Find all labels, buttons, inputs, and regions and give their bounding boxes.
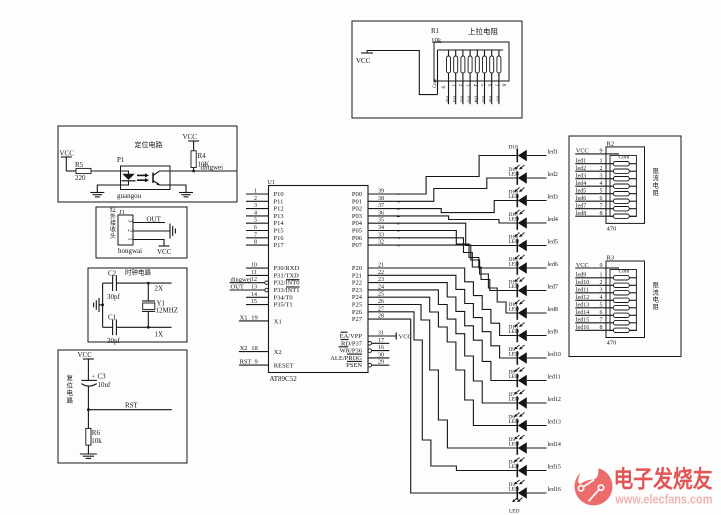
svg-text:led3: led3 bbox=[548, 195, 558, 201]
wire P21 to led10 bbox=[368, 275, 517, 358]
wire P00 to led1 bbox=[368, 156, 517, 195]
optocoupler coupling arrows bbox=[137, 173, 149, 182]
svg-text:led7: led7 bbox=[548, 285, 558, 291]
net label led6 (LED side) bbox=[548, 262, 558, 268]
svg-text:OUT: OUT bbox=[231, 284, 244, 291]
svg-text:P34/T0: P34/T0 bbox=[274, 294, 293, 301]
J1 pin numbers 3 2 1 (rotated) bbox=[127, 220, 133, 241]
net label dingwei (to P32/INT0) bbox=[231, 276, 252, 283]
svg-text:R3: R3 bbox=[607, 255, 615, 262]
svg-text:P10: P10 bbox=[274, 191, 284, 198]
svg-text:19: 19 bbox=[251, 314, 257, 321]
LED D10 (led9) bbox=[509, 323, 547, 343]
svg-text:P23: P23 bbox=[352, 287, 362, 294]
svg-text:9: 9 bbox=[255, 359, 258, 366]
svg-text:1: 1 bbox=[254, 189, 257, 195]
svg-text:4: 4 bbox=[600, 181, 603, 187]
power VCC (reset circuit) bbox=[78, 351, 94, 380]
svg-text:P27: P27 bbox=[352, 316, 363, 323]
svg-text:www.elecfans.com: www.elecfans.com bbox=[615, 493, 713, 507]
svg-text:7: 7 bbox=[600, 204, 603, 210]
net label led2 (LED side) bbox=[548, 172, 558, 178]
svg-text:AT89C52: AT89C52 bbox=[270, 375, 298, 383]
R1 net labels P00-P07 (rotated) bbox=[445, 96, 500, 103]
svg-text:P16: P16 bbox=[274, 235, 285, 242]
svg-text:P30/RXD: P30/RXD bbox=[274, 265, 300, 272]
svg-text:1X: 1X bbox=[155, 331, 164, 339]
R1 resistor elements 1-8 bbox=[447, 50, 501, 104]
R2 element pin 6 (net led6) bbox=[575, 196, 636, 203]
svg-text:收: 收 bbox=[110, 226, 116, 234]
svg-text:P31/TXD: P31/TXD bbox=[274, 272, 300, 279]
LED D3 (led16) bbox=[509, 480, 547, 500]
label hongwai bbox=[118, 247, 142, 255]
svg-text:led16: led16 bbox=[576, 325, 589, 331]
svg-text:1: 1 bbox=[600, 159, 603, 165]
svg-text:电: 电 bbox=[67, 388, 74, 397]
net label led15 (LED side) bbox=[548, 465, 561, 471]
label 时钟电路 bbox=[125, 268, 152, 277]
svg-text:5: 5 bbox=[254, 218, 257, 224]
label guangou bbox=[117, 192, 142, 200]
svg-text:P20: P20 bbox=[352, 265, 362, 272]
svg-text:led10: led10 bbox=[548, 352, 561, 358]
LED D3 emission arrows (below led16) bbox=[512, 498, 523, 503]
svg-text:Com: Com bbox=[619, 269, 631, 275]
R3 element pin 1 (net led9) bbox=[575, 273, 636, 280]
svg-text:8: 8 bbox=[600, 211, 603, 217]
svg-text:OUT: OUT bbox=[147, 216, 162, 224]
net label led13 (LED side) bbox=[548, 420, 561, 426]
ground (clock circuit, rotated left) bbox=[94, 298, 104, 312]
svg-text:流: 流 bbox=[653, 287, 660, 296]
optocoupler LED (pointing down) bbox=[121, 171, 136, 185]
wire RST bbox=[88, 402, 171, 410]
svg-text:led5: led5 bbox=[548, 240, 558, 246]
svg-text:P01: P01 bbox=[352, 198, 362, 205]
label LED (below led16) bbox=[509, 508, 520, 514]
R3 element pin 8 (net led16) bbox=[575, 325, 636, 332]
U1 pin RD/P37 (17) bbox=[341, 338, 390, 348]
svg-text:14: 14 bbox=[251, 292, 257, 298]
wire P03 to led4 bbox=[368, 216, 517, 223]
svg-text:10: 10 bbox=[251, 263, 257, 269]
wire X2 rail bbox=[147, 282, 172, 285]
svg-text:dingwei: dingwei bbox=[231, 276, 252, 283]
block frame: clock circuit (shi zhong dian lu) bbox=[88, 268, 187, 342]
svg-text:30pf: 30pf bbox=[107, 337, 121, 345]
svg-text:RST: RST bbox=[240, 359, 252, 366]
R2 common bus bbox=[606, 154, 636, 217]
net label OUT (to P33/INT1) bbox=[231, 284, 244, 291]
svg-text:30: 30 bbox=[378, 352, 384, 358]
svg-text:led13: led13 bbox=[548, 420, 561, 426]
svg-text:LED: LED bbox=[509, 194, 520, 200]
power VCC (above R4) bbox=[183, 133, 200, 141]
svg-text:P33/INT1: P33/INT1 bbox=[274, 287, 300, 294]
wire VCC to R2 pin9 bbox=[575, 148, 606, 155]
svg-text:P03: P03 bbox=[467, 96, 472, 103]
net label led3 (LED side) bbox=[548, 195, 558, 201]
svg-text:18: 18 bbox=[251, 345, 257, 352]
svg-text:P04: P04 bbox=[352, 220, 363, 227]
svg-text:led11: led11 bbox=[548, 375, 561, 381]
svg-text:10k: 10k bbox=[91, 437, 102, 445]
svg-text:led2: led2 bbox=[576, 166, 586, 172]
capacitor C2 bbox=[103, 270, 149, 302]
R3 element pin 7 (net led15) bbox=[575, 318, 636, 325]
svg-text:led11: led11 bbox=[576, 288, 589, 294]
LED D4 (led15) bbox=[509, 458, 547, 478]
U1 port1 pins 1-8 P10-P17 bbox=[246, 189, 284, 250]
svg-text:LED: LED bbox=[509, 374, 520, 380]
svg-text:P11: P11 bbox=[274, 198, 284, 205]
svg-text:RST: RST bbox=[125, 402, 139, 410]
svg-text:D18: D18 bbox=[509, 145, 519, 151]
power VCC (pull-up box) bbox=[356, 51, 373, 66]
svg-text:LED: LED bbox=[509, 441, 520, 447]
R2 element pin 5 (net led5) bbox=[575, 189, 636, 196]
R2 element pin 4 (net led4) bbox=[575, 181, 636, 188]
svg-text:12MHZ: 12MHZ bbox=[156, 307, 179, 315]
svg-text:复: 复 bbox=[67, 373, 74, 382]
label 限流电阻 (vertical, R2) bbox=[653, 166, 660, 197]
svg-text:11: 11 bbox=[251, 270, 257, 276]
net label 2X bbox=[155, 285, 164, 293]
svg-text:led1: led1 bbox=[548, 150, 558, 156]
svg-text:流: 流 bbox=[653, 173, 660, 182]
svg-text:17: 17 bbox=[378, 338, 384, 344]
svg-text:VCC: VCC bbox=[157, 248, 172, 256]
wire R5 to optocoupler bbox=[91, 170, 120, 172]
svg-text:470: 470 bbox=[607, 340, 617, 347]
ground (J1 pin2, rotated right) bbox=[170, 224, 175, 239]
svg-text:电: 电 bbox=[653, 295, 660, 304]
wire P07 to led8 bbox=[368, 245, 517, 313]
U1 port2 pin numbers and names bbox=[352, 263, 384, 324]
wire P27 to led16 bbox=[368, 319, 517, 493]
svg-text:P02: P02 bbox=[459, 96, 464, 103]
svg-text:led6: led6 bbox=[576, 196, 586, 202]
svg-text:LED: LED bbox=[509, 351, 520, 357]
svg-text:led4: led4 bbox=[576, 181, 586, 187]
svg-text:P26: P26 bbox=[352, 309, 363, 316]
watermark text 电子发烧友 bbox=[614, 465, 713, 492]
wire P01 to led2 bbox=[368, 178, 517, 201]
watermark text www.elecfans.com bbox=[615, 493, 713, 507]
svg-text:5: 5 bbox=[600, 303, 603, 309]
svg-text:VCC: VCC bbox=[183, 133, 198, 141]
IC U1 part name AT89C52 bbox=[270, 375, 298, 383]
LED D9 (led10) bbox=[509, 345, 547, 365]
wire opto collector to dingwei node bbox=[170, 170, 237, 172]
svg-text:Com: Com bbox=[433, 78, 438, 88]
U1 pin ALE/PROG (30) bbox=[330, 352, 389, 362]
svg-text:led5: led5 bbox=[576, 189, 586, 195]
svg-text:LED: LED bbox=[509, 329, 520, 335]
svg-text:led15: led15 bbox=[576, 318, 589, 324]
LED D15 (led4) bbox=[509, 210, 547, 230]
svg-text:P03: P03 bbox=[352, 213, 362, 220]
svg-text:P04: P04 bbox=[474, 96, 479, 103]
block frame: reset circuit (fu wei dian lu) bbox=[58, 350, 187, 463]
svg-text:VCC: VCC bbox=[60, 150, 75, 158]
svg-text:VCC: VCC bbox=[576, 148, 589, 155]
label 限流电阻 (vertical, R3) bbox=[653, 280, 660, 311]
optocoupler phototransistor bbox=[153, 171, 170, 186]
connector J1 body bbox=[118, 215, 133, 245]
label 红外接收头 (vertical) bbox=[110, 206, 116, 240]
svg-text:3: 3 bbox=[600, 174, 603, 180]
power VCC (J1 pin1, pointing down) bbox=[157, 246, 172, 256]
svg-text:3: 3 bbox=[600, 288, 603, 294]
connector J1 designator bbox=[119, 209, 125, 216]
svg-text:LED: LED bbox=[509, 239, 520, 245]
svg-text:P35/T1: P35/T1 bbox=[274, 302, 293, 309]
svg-text:R4: R4 bbox=[198, 152, 207, 160]
svg-text:P25: P25 bbox=[352, 302, 362, 309]
svg-text:led8: led8 bbox=[576, 211, 586, 217]
svg-text:led12: led12 bbox=[576, 295, 589, 301]
svg-text:10k: 10k bbox=[431, 37, 442, 45]
svg-text:接: 接 bbox=[110, 219, 116, 227]
svg-text:P02: P02 bbox=[352, 206, 362, 213]
svg-text:LED: LED bbox=[509, 216, 520, 222]
svg-text:dingwei: dingwei bbox=[201, 164, 224, 172]
svg-text:限: 限 bbox=[653, 280, 660, 289]
svg-text:X2: X2 bbox=[274, 349, 282, 356]
svg-text:12: 12 bbox=[251, 277, 257, 283]
net label led16 (LED side) bbox=[548, 487, 561, 493]
wire X1 rail bbox=[147, 326, 172, 329]
svg-text:2: 2 bbox=[600, 166, 603, 172]
U1 pin WR/P36 (16) bbox=[339, 345, 390, 355]
wire VCC to R5 bbox=[66, 159, 76, 171]
svg-text:4: 4 bbox=[600, 295, 603, 301]
wire P06 to led7 bbox=[368, 238, 517, 291]
svg-text:5: 5 bbox=[600, 189, 603, 195]
R3 value 470 bbox=[607, 340, 617, 347]
wire opto cathode to ground bbox=[97, 185, 120, 192]
R3 element pin 3 (net led11) bbox=[575, 288, 636, 295]
svg-text:led3: led3 bbox=[576, 174, 586, 180]
svg-text:LED: LED bbox=[509, 396, 520, 402]
svg-text:2: 2 bbox=[600, 280, 603, 286]
svg-text:2: 2 bbox=[127, 229, 133, 232]
svg-text:P01: P01 bbox=[452, 96, 457, 103]
svg-text:P21: P21 bbox=[352, 272, 362, 279]
svg-text:电子发烧友: 电子发烧友 bbox=[614, 465, 713, 492]
label 定位电路 bbox=[135, 140, 163, 149]
net label led1 (LED side) bbox=[548, 150, 558, 156]
svg-text:P1: P1 bbox=[117, 156, 125, 164]
svg-text:7: 7 bbox=[600, 318, 603, 324]
svg-text:6: 6 bbox=[600, 196, 603, 202]
svg-text:P12: P12 bbox=[274, 206, 284, 213]
R3 element pin 4 (net led12) bbox=[575, 295, 636, 302]
svg-text:X1: X1 bbox=[240, 314, 248, 321]
svg-text:2X: 2X bbox=[155, 285, 164, 293]
R1 label Com (rotated) bbox=[433, 78, 438, 88]
IC U1 body bbox=[269, 186, 369, 373]
node dingwei bbox=[192, 164, 223, 173]
svg-text:8: 8 bbox=[254, 240, 257, 246]
svg-text:LED: LED bbox=[509, 171, 520, 177]
svg-text:4: 4 bbox=[254, 210, 257, 216]
resistor network R2 body bbox=[606, 147, 645, 224]
LED D6 (led13) bbox=[509, 413, 547, 433]
U1 port0 pin numbers and names bbox=[352, 189, 401, 250]
svg-text:PSEN: PSEN bbox=[346, 362, 362, 369]
wire P23 to led12 bbox=[368, 290, 517, 403]
svg-text:外: 外 bbox=[110, 213, 116, 221]
svg-text:P06: P06 bbox=[352, 235, 363, 242]
svg-text:LED: LED bbox=[509, 284, 520, 290]
svg-text:R2: R2 bbox=[607, 140, 615, 147]
svg-text:阻: 阻 bbox=[653, 302, 660, 311]
svg-text:X2: X2 bbox=[240, 345, 248, 352]
wire P20 to led9 bbox=[368, 268, 517, 336]
svg-text:VCC: VCC bbox=[576, 262, 589, 269]
svg-text:2: 2 bbox=[254, 196, 257, 202]
svg-text:10uf: 10uf bbox=[98, 381, 112, 389]
svg-text:定位电路: 定位电路 bbox=[135, 140, 163, 149]
svg-text:RESET: RESET bbox=[274, 363, 294, 370]
block frame: infrared receiver bbox=[96, 207, 187, 258]
svg-text:VCC: VCC bbox=[356, 57, 371, 65]
svg-text:9: 9 bbox=[600, 149, 603, 155]
svg-text:P17: P17 bbox=[274, 242, 285, 249]
optocoupler P1 body bbox=[121, 166, 171, 190]
R2 element pin 8 (net led8) bbox=[575, 211, 636, 218]
svg-text:X1: X1 bbox=[274, 319, 282, 326]
svg-text:P13: P13 bbox=[274, 213, 284, 220]
svg-text:VCC: VCC bbox=[78, 351, 93, 359]
svg-text:P00: P00 bbox=[445, 96, 450, 103]
ground (reset circuit) bbox=[80, 454, 97, 458]
svg-text:LED: LED bbox=[509, 486, 520, 492]
svg-text:LED: LED bbox=[509, 306, 520, 312]
net label led7 (LED side) bbox=[548, 285, 558, 291]
svg-text:R6: R6 bbox=[92, 429, 101, 437]
svg-text:7: 7 bbox=[254, 232, 257, 238]
svg-text:led10: led10 bbox=[576, 280, 589, 286]
svg-text:3: 3 bbox=[127, 220, 133, 223]
svg-text:led14: led14 bbox=[576, 310, 589, 316]
resistor network R3 designator bbox=[607, 255, 615, 262]
block frame: current-limit resistor networks bbox=[569, 136, 681, 357]
R2 element pin 3 (net led3) bbox=[575, 174, 636, 181]
U1 pin PSEN (29) bbox=[346, 360, 389, 370]
block frame: pull-up circuit (shang la dian zu) bbox=[352, 21, 522, 118]
svg-text:9: 9 bbox=[600, 263, 603, 269]
resistor network R1 body bbox=[434, 42, 509, 81]
block frame: positioning circuit (ding wei dian lu) bbox=[58, 126, 237, 202]
ground (opto output side) bbox=[179, 193, 193, 197]
svg-text:P15: P15 bbox=[274, 228, 284, 235]
resistor network R2 designator bbox=[607, 140, 615, 147]
svg-text:1: 1 bbox=[600, 273, 603, 279]
svg-text:29: 29 bbox=[378, 360, 384, 366]
svg-text:P05: P05 bbox=[481, 96, 486, 103]
wire left rail (C2 to C1) bbox=[102, 283, 104, 327]
R3 element pin 5 (net led13) bbox=[575, 303, 636, 310]
svg-text:P06: P06 bbox=[488, 96, 493, 103]
net label led9 (LED side) bbox=[548, 330, 558, 336]
LED D12 (led7) bbox=[509, 278, 547, 298]
svg-text:LED: LED bbox=[509, 419, 520, 425]
wire J1 pin2 to ground bbox=[133, 230, 170, 232]
svg-text:guangou: guangou bbox=[117, 192, 142, 200]
svg-text:led4: led4 bbox=[548, 217, 558, 223]
wire VCC to R1 Com pin bbox=[367, 51, 438, 95]
capacitor C1 bbox=[103, 314, 149, 346]
wire VCC to R3 pin9 bbox=[575, 262, 606, 269]
U1 pin RESET (9) bbox=[239, 359, 294, 370]
svg-text:上拉电阻: 上拉电阻 bbox=[468, 26, 498, 36]
svg-text:led15: led15 bbox=[548, 465, 561, 471]
LED D8 (led11) bbox=[509, 368, 547, 388]
IC U1 designator bbox=[268, 180, 275, 186]
svg-text:8: 8 bbox=[600, 325, 603, 331]
svg-text:P05: P05 bbox=[352, 228, 362, 235]
LED D11 (led8) bbox=[509, 300, 547, 320]
R3 element pin 2 (net led10) bbox=[575, 280, 636, 287]
svg-text:6: 6 bbox=[600, 310, 603, 316]
wire J1 pin3 OUT bbox=[133, 216, 165, 224]
svg-text:220: 220 bbox=[75, 174, 86, 182]
wire P25 to led14 bbox=[368, 305, 517, 449]
LED D13 (led6) bbox=[509, 255, 547, 275]
svg-text:路: 路 bbox=[67, 396, 74, 405]
svg-text:VCC: VCC bbox=[399, 334, 412, 341]
LED D5 (led14) bbox=[509, 435, 547, 455]
resistor R6 bbox=[86, 410, 103, 454]
wire opto emitter to ground bbox=[170, 185, 186, 192]
svg-text:P07: P07 bbox=[352, 242, 363, 249]
power VCC (left of R5) bbox=[60, 150, 75, 160]
svg-text:P00: P00 bbox=[352, 191, 362, 198]
svg-text:P07: P07 bbox=[495, 96, 500, 103]
wire P04 to led5 bbox=[368, 223, 517, 245]
net label led14 (LED side) bbox=[548, 442, 561, 448]
net label led12 (LED side) bbox=[548, 397, 561, 403]
svg-text:Com: Com bbox=[619, 155, 631, 161]
svg-text:led9: led9 bbox=[576, 273, 586, 279]
svg-text:13: 13 bbox=[251, 285, 257, 291]
svg-text:LED: LED bbox=[509, 508, 520, 514]
svg-text:6: 6 bbox=[254, 225, 257, 231]
R2 value 470 bbox=[607, 225, 617, 232]
svg-text:15: 15 bbox=[251, 299, 257, 305]
net label led4 (LED side) bbox=[548, 217, 558, 223]
R1 common bus bbox=[438, 50, 504, 95]
svg-text:hongwai: hongwai bbox=[118, 247, 142, 255]
wire P02 to led3 bbox=[368, 201, 517, 213]
LED D7 (led12) bbox=[509, 390, 547, 410]
U1 port3 pins 10-15 bbox=[230, 263, 300, 309]
U1 pin X2 (18) bbox=[239, 345, 282, 356]
svg-text:R5: R5 bbox=[75, 161, 84, 169]
svg-text:3: 3 bbox=[254, 203, 257, 209]
R2 element pin 1 (net led1) bbox=[575, 159, 636, 166]
LED D14 (led5) bbox=[509, 233, 547, 253]
R1 pin numbers 1-8 (rotated) bbox=[450, 84, 505, 87]
svg-text:LED: LED bbox=[509, 261, 520, 267]
svg-text:led14: led14 bbox=[548, 442, 561, 448]
LED D18 (led1) bbox=[509, 145, 547, 163]
svg-text:P32/INT0: P32/INT0 bbox=[274, 280, 300, 287]
